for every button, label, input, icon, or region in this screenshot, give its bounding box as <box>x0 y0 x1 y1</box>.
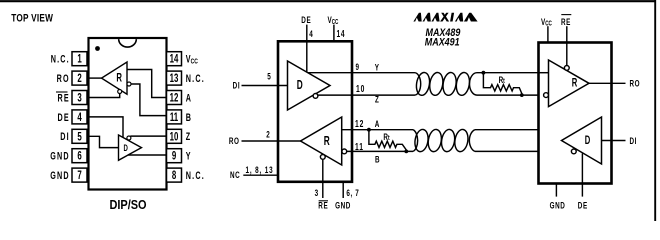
svg-text:Y: Y <box>186 150 192 162</box>
svg-text:6: 6 <box>77 150 82 163</box>
svg-text:RE: RE <box>561 17 571 28</box>
page right border rule <box>654 0 656 221</box>
MAXIM logo <box>413 13 477 22</box>
svg-text:6, 7: 6, 7 <box>346 188 359 199</box>
DIP/SO package body U1 <box>89 38 167 190</box>
D inverting output bubble (U2) <box>313 94 318 99</box>
R inverting input bubble (U2) <box>342 149 347 154</box>
twisted pair AB right end cap <box>469 130 475 152</box>
svg-text:14: 14 <box>337 27 346 39</box>
bus wire Y into U3 R input <box>539 72 549 74</box>
wire B to U2 receiver <box>342 150 413 152</box>
svg-text:DI: DI <box>630 136 638 147</box>
bus wire Z to U3 <box>477 94 543 96</box>
receiver triangle R (U2) <box>301 117 342 165</box>
twisted pair AB loop 3 <box>440 128 456 152</box>
svg-text:Rt: Rt <box>499 75 505 86</box>
svg-text:N.C.: N.C. <box>186 170 205 182</box>
pin 10 box <box>167 129 182 143</box>
svg-text:DIP/SO: DIP/SO <box>109 197 146 212</box>
svg-text:RE: RE <box>57 92 69 104</box>
svg-text:R: R <box>324 135 330 149</box>
svg-text:11: 11 <box>170 111 179 124</box>
svg-text:Z: Z <box>186 131 192 143</box>
termination resistor Rt (bottom) <box>369 130 406 152</box>
bus wire A from U3 driver <box>475 129 577 131</box>
svg-text:DE: DE <box>578 200 588 211</box>
pin 5 box <box>72 129 87 143</box>
RE overline (U3) <box>561 14 571 16</box>
pin 11 box <box>167 110 182 124</box>
twisted pair AB loop 4 <box>453 128 469 152</box>
svg-text:Y: Y <box>375 62 380 73</box>
svg-text:10: 10 <box>170 131 179 144</box>
svg-text:D: D <box>585 135 591 148</box>
pin 4 box <box>72 110 87 124</box>
svg-text:RO: RO <box>229 136 240 147</box>
svg-text:Rt: Rt <box>383 132 389 143</box>
pin 13 box <box>167 71 182 85</box>
pin 9 box <box>167 149 182 163</box>
wire A pin12 to R input <box>127 70 167 98</box>
bus wire Y to U3 <box>477 72 549 74</box>
svg-text:9: 9 <box>172 150 177 163</box>
R inverting input bubble (U3) <box>544 93 549 98</box>
svg-text:3: 3 <box>315 188 319 199</box>
svg-text:RO: RO <box>630 78 641 89</box>
twisted pair AB loop 1 <box>413 128 429 152</box>
svg-text:A: A <box>186 92 192 104</box>
wire Z from U2 driver <box>318 94 415 96</box>
svg-text:5: 5 <box>267 71 271 82</box>
svg-text:GND: GND <box>335 200 351 211</box>
svg-text:DI: DI <box>60 131 70 143</box>
bus wire B from U3 driver <box>475 150 572 152</box>
svg-text:GND: GND <box>50 150 70 162</box>
svg-text:B: B <box>186 111 192 123</box>
svg-text:R: R <box>572 77 578 90</box>
RE pin lead (U3 top) <box>566 26 568 65</box>
svg-text:11: 11 <box>355 140 364 152</box>
pin 2 box <box>72 71 87 85</box>
wire DE pin4 to D enable <box>89 117 124 138</box>
page top border rule <box>0 0 656 2</box>
pin 7 box <box>72 168 87 182</box>
svg-text:10: 10 <box>356 83 365 95</box>
R inverting input bubble <box>127 82 131 86</box>
wire RO pin2 to R output <box>89 77 102 79</box>
svg-text:MAX491: MAX491 <box>425 37 460 49</box>
RE enable wire with bubble (U2 bottom) <box>322 160 324 198</box>
svg-text:D: D <box>297 79 303 93</box>
svg-text:A: A <box>375 119 380 130</box>
wire RO output (U3) <box>589 82 626 84</box>
wire RE pin3 to R enable <box>89 93 120 98</box>
transceiver U3 box (right device) <box>539 43 612 184</box>
R enable bubble <box>118 90 122 94</box>
junction dot on Y <box>482 71 486 75</box>
pin 3 box <box>72 91 87 105</box>
VCC pin lead (U3 top) <box>547 26 549 42</box>
GND wire (U3 bottom) <box>555 184 557 197</box>
DE enable stub into D (U2) <box>306 41 308 72</box>
svg-text:2: 2 <box>77 73 82 86</box>
svg-text:DE: DE <box>301 15 311 26</box>
svg-text:5: 5 <box>77 131 82 144</box>
VCC pin lead (U2 top) <box>333 25 335 42</box>
svg-text:N.C.: N.C. <box>51 53 70 65</box>
svg-text:4: 4 <box>309 29 313 40</box>
package pin-1 index dot <box>95 46 100 51</box>
RE enable bubble (U3) <box>564 66 569 71</box>
svg-text:Z: Z <box>375 94 379 105</box>
wire Y D output to pin9 <box>128 154 167 156</box>
receiver triangle R (inside DIP) <box>102 62 128 94</box>
wire Z D inverting output to pin10 <box>130 135 166 137</box>
svg-text:13: 13 <box>170 73 179 86</box>
svg-text:D: D <box>124 143 129 154</box>
pin 3 label overline <box>56 91 68 93</box>
wire Y from U2 driver <box>308 72 415 74</box>
termination resistor Rt (top) <box>483 73 521 95</box>
svg-text:N.C.: N.C. <box>186 73 205 85</box>
DE pin lead (U2 top) <box>306 25 308 42</box>
twisted pair YZ loop 4 <box>455 72 471 97</box>
svg-text:GND: GND <box>50 170 70 182</box>
twisted pair YZ right end cap <box>470 73 478 95</box>
D inverting output bubble (U3) <box>571 149 576 154</box>
pin 6 box <box>72 149 87 163</box>
svg-text:NC: NC <box>230 170 240 181</box>
wire A to U2 receiver <box>342 129 413 131</box>
receiver triangle R (U3) <box>549 60 590 107</box>
pin 12 box <box>167 91 182 105</box>
wire RO output (U2) <box>242 140 301 142</box>
svg-text:14: 14 <box>170 53 179 66</box>
driver triangle D (U3) <box>562 117 602 164</box>
driver triangle D (U2) <box>288 61 331 110</box>
svg-text:12: 12 <box>355 118 364 130</box>
pin 14 box <box>167 52 182 66</box>
wire DI input (U2) <box>242 85 288 87</box>
twisted pair YZ left end cap <box>415 73 421 95</box>
junction dot on Z <box>520 93 524 97</box>
svg-text:7: 7 <box>77 170 82 183</box>
pin 1 box <box>72 52 87 66</box>
twisted pair AB loop 2 <box>427 128 443 152</box>
svg-text:RO: RO <box>57 73 70 85</box>
svg-text:DE: DE <box>57 111 69 123</box>
DE enable wire (U3 bottom) <box>581 154 583 197</box>
svg-text:2: 2 <box>266 129 270 140</box>
svg-text:8: 8 <box>172 170 177 183</box>
svg-text:1: 1 <box>77 53 82 66</box>
twisted pair YZ loop 1 <box>415 72 431 97</box>
junction dot on B <box>404 150 408 154</box>
svg-text:3: 3 <box>77 92 82 105</box>
driver triangle D (inside DIP) <box>119 135 142 160</box>
wire NC pins (U2) <box>243 174 278 176</box>
twisted pair YZ loop 2 <box>428 72 444 97</box>
wire DI input (U3) <box>602 140 626 142</box>
svg-text:GND: GND <box>550 200 566 211</box>
GND wire (U2 bottom) <box>342 181 344 198</box>
twisted pair AB left end cap <box>413 130 418 152</box>
junction dot on A <box>367 128 371 132</box>
svg-text:RE: RE <box>318 200 328 211</box>
svg-text:4: 4 <box>77 111 82 124</box>
svg-text:DI: DI <box>233 80 241 91</box>
RE enable bubble (U2) <box>320 155 325 160</box>
svg-text:B: B <box>375 154 380 165</box>
transceiver U2 box (left device) <box>278 41 352 182</box>
package pin-1 index notch <box>119 39 137 47</box>
wire DI pin5 to D input <box>89 136 119 147</box>
svg-text:TOP VIEW: TOP VIEW <box>11 13 53 25</box>
D inverting output bubble <box>127 136 131 140</box>
svg-text:1, 8, 13: 1, 8, 13 <box>246 165 274 176</box>
twisted pair YZ loop 3 <box>441 72 457 97</box>
svg-text:12: 12 <box>170 92 179 105</box>
wire B pin11 to R inverting input <box>129 84 167 116</box>
svg-text:9: 9 <box>356 62 360 73</box>
RE overline (U2 bottom) <box>319 200 328 202</box>
svg-text:R: R <box>116 72 122 85</box>
pin 8 box <box>167 168 182 182</box>
